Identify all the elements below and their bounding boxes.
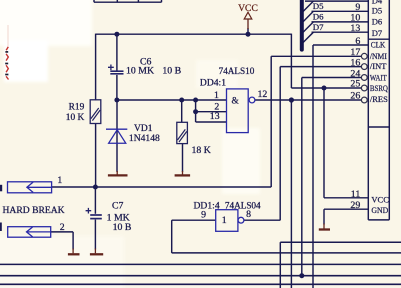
svg-text:10 B: 10 B: [113, 222, 132, 233]
svg-text:11: 11: [351, 189, 361, 200]
svg-text:18 K: 18 K: [192, 145, 211, 156]
svg-text:13: 13: [210, 111, 220, 122]
svg-text:D4: D4: [372, 0, 383, 5]
svg-text:1N4148: 1N4148: [129, 133, 160, 144]
svg-text:8: 8: [246, 209, 251, 220]
svg-text:1: 1: [214, 90, 219, 101]
svg-text:D5: D5: [372, 6, 382, 16]
svg-text:CLK: CLK: [371, 40, 386, 50]
svg-text:26: 26: [350, 91, 360, 102]
svg-text:DD1:4: DD1:4: [194, 200, 220, 211]
svg-text:&: &: [232, 97, 240, 107]
svg-text:10 K: 10 K: [66, 113, 85, 123]
svg-text:BSRQ: BSRQ: [370, 83, 388, 93]
svg-text:HARD BREAK: HARD BREAK: [3, 205, 65, 216]
svg-text:C7: C7: [112, 201, 124, 212]
svg-text:29: 29: [350, 200, 360, 211]
svg-text:25: 25: [350, 79, 360, 90]
svg-text:D7: D7: [372, 28, 382, 38]
svg-text:DD4:1: DD4:1: [200, 78, 226, 89]
svg-text:1: 1: [57, 175, 62, 186]
svg-text:10 MK: 10 MK: [126, 65, 154, 76]
svg-text:/INT: /INT: [370, 61, 387, 71]
svg-text:D6: D6: [372, 17, 382, 27]
svg-text:10 B: 10 B: [162, 65, 181, 76]
svg-text:VCC: VCC: [238, 3, 258, 14]
svg-text:1: 1: [222, 215, 227, 226]
svg-text:13: 13: [350, 23, 360, 34]
svg-text:VCC: VCC: [371, 194, 389, 204]
svg-text:D7: D7: [313, 22, 324, 32]
svg-text:WAIT: WAIT: [370, 72, 387, 82]
svg-text:D6: D6: [313, 12, 324, 22]
svg-text:9: 9: [201, 210, 206, 221]
svg-text:/RES: /RES: [370, 94, 388, 104]
svg-text:GND: GND: [371, 205, 388, 215]
svg-text:74ALS04: 74ALS04: [225, 200, 261, 210]
svg-text:/NMI: /NMI: [370, 51, 387, 61]
svg-text:12: 12: [258, 89, 268, 100]
svg-text:R19: R19: [69, 103, 85, 113]
svg-text:2: 2: [60, 222, 65, 233]
svg-text:6: 6: [355, 36, 360, 47]
svg-text:16: 16: [350, 57, 360, 68]
svg-text:9: 9: [355, 2, 360, 13]
svg-text:D5: D5: [313, 1, 324, 11]
svg-text:74ALS10: 74ALS10: [219, 66, 255, 76]
